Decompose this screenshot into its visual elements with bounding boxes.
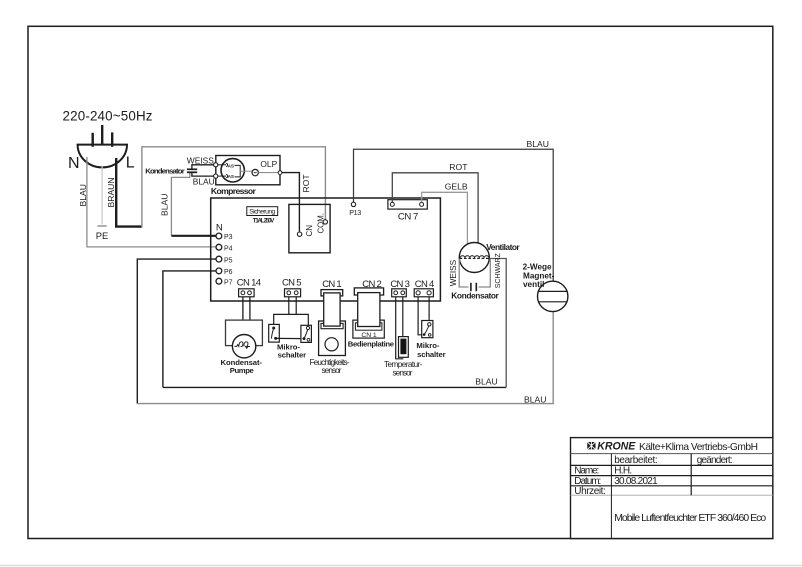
pin BLAU terminal (214, 174, 218, 178)
wire CN5 to microswitches (274, 297, 309, 327)
svg-text:P4: P4 (224, 245, 233, 252)
wire OLP to relay CN (ROT) (258, 173, 299, 232)
terminal P13 with wire BLAU to valve (349, 139, 553, 281)
svg-text:P3: P3 (224, 234, 233, 241)
svg-text:CN 14: CN 14 (237, 278, 261, 289)
ground PE (96, 226, 109, 241)
connector CN 14 (237, 278, 261, 297)
svg-text:BRAUN: BRAUN (106, 177, 116, 207)
microswitch S1 left (269, 324, 280, 342)
wire PE (101, 167, 103, 225)
svg-text:2-Wege: 2-Wege (523, 263, 552, 272)
label BRAUN vertical (106, 177, 116, 207)
title block (571, 438, 773, 539)
svg-text:Mikro-: Mikro- (416, 341, 440, 350)
control board Bedienplatine housing (353, 320, 384, 338)
capacitor Kondensator (compressor) (145, 165, 213, 176)
wire BLAU capacitor to P3 (171, 173, 216, 236)
wire N BLAU plug to P4 (87, 157, 216, 247)
svg-text:CN 1: CN 1 (361, 332, 377, 339)
svg-text:N: N (216, 223, 223, 234)
wire CN14 to pump (243, 297, 250, 320)
svg-text:P7: P7 (224, 279, 233, 286)
svg-text:Pumpe: Pumpe (230, 366, 255, 375)
connector CN 3 (390, 279, 410, 297)
svg-text:CN 4: CN 4 (415, 279, 435, 290)
wire between microswitches (276, 337, 304, 339)
terminal P3 (216, 233, 233, 241)
svg-text:sensor: sensor (393, 368, 413, 377)
svg-text:sensor: sensor (322, 366, 342, 375)
svg-text:BLAU: BLAU (475, 376, 497, 386)
node N label (216, 223, 223, 234)
humidity sensor circle (310, 338, 350, 375)
wire L loop to relay COM (142, 147, 326, 228)
terminal P4 (216, 244, 233, 252)
svg-text:T1AL 250V: T1AL 250V (253, 218, 274, 224)
compressor box U-KOMP (187, 156, 280, 197)
capacitor Kondensator (fan) (451, 283, 499, 301)
svg-text:KRONE: KRONE (597, 441, 636, 453)
terminal P6 (216, 268, 233, 276)
svg-text:schalter: schalter (278, 350, 307, 359)
relay box on board (289, 204, 330, 252)
svg-text:Sicherung: Sicherung (249, 209, 275, 216)
svg-text:ROT: ROT (449, 162, 468, 172)
svg-text:Kälte+Klima Vertriebs-GmbH: Kälte+Klima Vertriebs-GmbH (639, 442, 758, 453)
svg-text:BLAU: BLAU (78, 184, 88, 206)
humidity sensor box (319, 321, 346, 356)
wire GELB CN7 to fan (422, 181, 468, 256)
terminal P5 (216, 256, 233, 264)
pin WEISS terminal (214, 163, 218, 167)
svg-text:CN 7: CN 7 (398, 211, 419, 222)
label BLAU vertical left (78, 184, 88, 206)
condensate pump Kondensat-Pumpe (221, 320, 263, 375)
svg-text:BLAU: BLAU (160, 194, 170, 216)
microswitch S2 right (277, 325, 311, 359)
svg-text:bearbeitet:: bearbeitet: (614, 455, 658, 466)
svg-text:Mobile Luftentfeuchter ETF 360: Mobile Luftentfeuchter ETF 360/460 Eco (614, 513, 766, 524)
microswitch S3 right (416, 321, 445, 360)
svg-text:ROT: ROT (301, 174, 311, 193)
svg-text:OLP: OLP (260, 159, 277, 169)
svg-text:Kompressor: Kompressor (211, 186, 257, 196)
wire lower BLAU return line to valve (137, 312, 553, 405)
title block fields (574, 455, 766, 524)
label BLAU vertical mid (160, 194, 170, 216)
svg-text:CN: CN (305, 225, 314, 237)
svg-text:Bedienplatine: Bedienplatine (348, 339, 395, 348)
connector CN 4 (414, 279, 434, 297)
svg-text:CN 5: CN 5 (282, 278, 302, 289)
solenoid valve 2-Wege Magnetventil (523, 263, 568, 312)
label 220-240~50Hz (63, 109, 153, 124)
svg-text:COM.: COM. (317, 213, 326, 233)
svg-text:PE: PE (96, 230, 109, 241)
svg-text:CN 3: CN 3 (390, 279, 410, 290)
connector CN 7 (388, 200, 427, 223)
main PCB board (211, 198, 441, 301)
svg-text:L: L (126, 155, 135, 172)
wire upper BLAU return line to fan (163, 259, 506, 388)
fan motor Ventilator (459, 242, 520, 272)
connector CN 2 (354, 279, 383, 295)
svg-text:ventil: ventil (523, 280, 544, 289)
svg-text:Kondensator: Kondensator (451, 291, 499, 301)
connector CN1 cable body (324, 293, 340, 326)
wire CN4 to microswitch (418, 297, 429, 335)
svg-text:BLAU: BLAU (527, 139, 549, 149)
mains plug (68, 125, 135, 172)
svg-text:BLAU: BLAU (524, 394, 546, 404)
svg-text:P6: P6 (224, 269, 233, 276)
svg-text:30.08.2021: 30.08.2021 (614, 476, 658, 487)
connector CN 1 (321, 279, 343, 296)
pin CN relay (297, 225, 314, 237)
connector CN2 cable body (358, 293, 380, 327)
svg-text:Ventilator: Ventilator (486, 242, 520, 252)
wire ROT CN7 to fan (392, 162, 478, 256)
wire P5 to lower BLAU line (137, 259, 216, 404)
temperature sensor NTC (384, 337, 423, 378)
svg-text:WEISS: WEISS (187, 156, 214, 166)
svg-text:N: N (68, 155, 80, 172)
logo KRONE (587, 441, 758, 453)
connector CN 5 (282, 278, 302, 297)
overload protector OLP (252, 159, 278, 176)
svg-text:220-240~50Hz: 220-240~50Hz (63, 109, 153, 124)
svg-text:AS: AS (228, 174, 234, 179)
terminal P7 (216, 278, 233, 286)
svg-text:CN 1: CN 1 (322, 279, 342, 290)
pin COM relay (317, 213, 328, 233)
svg-text:AS: AS (228, 164, 234, 169)
wire L BRAUN (116, 158, 142, 227)
compressor motor M1 (218, 159, 252, 182)
svg-text:WEISS: WEISS (449, 259, 458, 286)
wire CN3 to temperature sensor (396, 297, 404, 359)
control board labels (348, 332, 395, 348)
svg-text:P13: P13 (349, 208, 361, 217)
svg-text:SCHWARZ: SCHWARZ (495, 252, 502, 288)
svg-text:geändert:: geändert: (697, 455, 733, 466)
pin junction OLP box edge (278, 171, 282, 175)
svg-text:P5: P5 (224, 257, 233, 264)
label ROT vertical (301, 174, 311, 193)
wire P6 to upper BLAU line (163, 271, 216, 388)
svg-text:Uhrzeit:: Uhrzeit: (574, 486, 606, 497)
svg-text:Kondensator: Kondensator (145, 167, 185, 176)
fuse Sicherung (247, 207, 278, 225)
svg-text:GELB: GELB (445, 181, 468, 191)
wire WEISS fan to capacitor (449, 259, 469, 287)
wire SCHWARZ capacitor to fan right (479, 252, 502, 288)
svg-text:schalter: schalter (417, 350, 446, 359)
svg-text:BLAU: BLAU (193, 177, 215, 187)
